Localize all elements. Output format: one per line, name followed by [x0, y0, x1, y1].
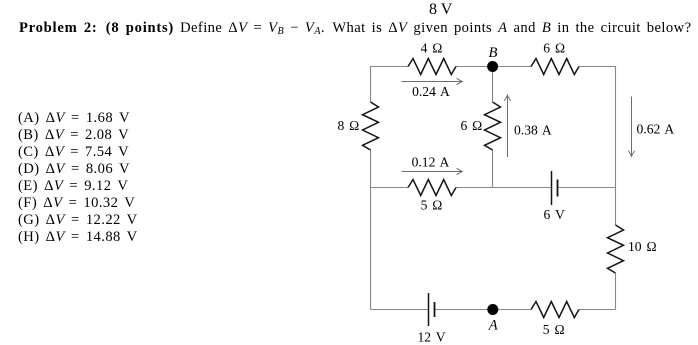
current arrow 0.24 A — [401, 78, 462, 84]
choice E — [18, 178, 128, 195]
choice D — [18, 161, 130, 178]
resistor 6-ohm (middle branch) — [485, 102, 501, 150]
choice A — [18, 110, 130, 127]
svg-text:B: B — [489, 45, 498, 61]
svg-text:0.12 A: 0.12 A — [412, 155, 450, 170]
node B dot — [487, 61, 498, 72]
wire middle-right segment — [558, 187, 616, 189]
svg-text:6 Ω: 6 Ω — [460, 118, 482, 133]
resistor 5-ohm (middle) — [408, 180, 456, 196]
wire from 6-ohm down to middle wire — [492, 150, 494, 188]
svg-text:10 Ω: 10 Ω — [628, 239, 657, 254]
svg-text:0.38 A: 0.38 A — [514, 122, 552, 137]
wire from node B down to 6-ohm — [492, 67, 494, 103]
wire top-right segment — [579, 67, 616, 226]
wire middle-center segment — [456, 187, 551, 189]
svg-text:6 Ω: 6 Ω — [543, 41, 565, 56]
current arrow 0.62 A (down) — [628, 97, 634, 157]
resistor 5-ohm (bottom) — [531, 302, 579, 318]
choice H — [18, 229, 138, 246]
svg-text:4 Ω: 4 Ω — [421, 41, 443, 56]
svg-text:8 Ω: 8 Ω — [337, 118, 359, 133]
svg-text:5 Ω: 5 Ω — [543, 322, 565, 337]
wire bottom-left segment — [371, 309, 429, 311]
battery 6 V short plate — [557, 180, 559, 197]
wire right side below 10-ohm — [615, 273, 617, 310]
current arrow 0.38 A (up) — [504, 95, 510, 157]
choice B — [18, 127, 129, 144]
wire middle-left segment — [371, 187, 409, 189]
problem statement — [19, 20, 691, 37]
svg-text:5 Ω: 5 Ω — [421, 198, 443, 213]
node A dot — [487, 304, 498, 315]
wire bottom-right segment — [579, 309, 616, 311]
svg-text:6 V: 6 V — [544, 207, 565, 222]
wire top-middle segment (through node B) — [456, 66, 531, 68]
svg-text:0.62 A: 0.62 A — [637, 122, 675, 137]
label 8 V (top) — [429, 1, 452, 19]
wire bottom-middle segment (through node A) — [435, 309, 531, 311]
resistor 8-ohm — [363, 102, 379, 150]
resistor 10-ohm — [608, 225, 624, 273]
choice G — [18, 212, 138, 229]
choice C — [18, 144, 129, 161]
battery 12 V long plate — [428, 293, 430, 326]
choice F — [18, 195, 135, 212]
svg-text:0.24 A: 0.24 A — [412, 84, 450, 99]
resistor 4-ohm — [408, 59, 456, 75]
wire left side below 8-ohm — [370, 150, 372, 310]
svg-text:12 V: 12 V — [417, 330, 445, 345]
wire top-left segment — [371, 67, 409, 103]
resistor 6-ohm (top) — [531, 59, 579, 75]
battery 6 V long plate — [551, 171, 553, 205]
current arrow 0.12 A — [401, 168, 462, 174]
svg-text:A: A — [488, 318, 498, 334]
battery 12 V short plate — [434, 302, 436, 317]
